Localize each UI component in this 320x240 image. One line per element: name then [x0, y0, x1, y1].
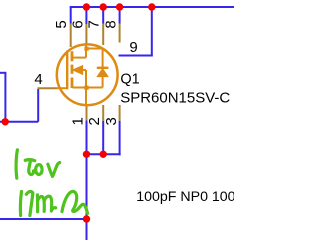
annotation 17mohm digit 1: [20, 192, 21, 216]
transistor Q1 MOSFET symbol: [57, 44, 118, 106]
svg-text:5: 5: [53, 20, 70, 28]
junction dot bus pin9: [148, 3, 155, 10]
annotation 150v digit 5: [25, 160, 35, 175]
wire pin9 horizontal: [119, 55, 153, 57]
Q1 drain to channel: [73, 57, 87, 59]
svg-text:3: 3: [103, 117, 120, 125]
wire pin6 riser: [85, 7, 87, 24]
pin 8: [119, 24, 121, 43]
svg-text:SPR60N15SV-C: SPR60N15SV-C: [120, 89, 230, 106]
junction dot gate left: [1, 118, 8, 125]
Q1 body arrow head: [73, 66, 83, 75]
junction dot bus pin8: [116, 3, 123, 10]
Q1 diode cathode lead: [102, 49, 104, 68]
wire pin8 riser: [119, 7, 121, 24]
Q1 channel bottom segment: [71, 78, 74, 89]
annotation 17mohm digit 7: [26, 191, 33, 215]
wire pin1 drop: [86, 120, 88, 154]
annotation 150v digit 0: [36, 165, 42, 175]
Q1 drain to diode horizontal: [86, 48, 103, 50]
Q1 junction square drain: [84, 47, 88, 51]
Q1 arrow to source vertical: [85, 70, 87, 88]
wire source bus: [87, 153, 121, 155]
Q1 diode cathode bar: [97, 67, 109, 69]
Q1 body arrow tail: [82, 69, 86, 71]
pin 4: [38, 87, 57, 89]
Q1 diode anode lead: [102, 76, 104, 87]
Q1 channel middle segment: [71, 65, 74, 74]
annotation 17mohm letter m: [37, 195, 55, 212]
junction dot bottom: [83, 215, 90, 222]
Q1 junction square source: [84, 86, 88, 90]
wire bottom down: [86, 219, 88, 240]
Q1 gate bar: [66, 51, 68, 90]
wire gate left vertical: [4, 73, 6, 122]
junction dot bus pin7: [100, 3, 107, 10]
wire gate top stub: [0, 72, 6, 74]
Q1 source line: [73, 87, 103, 89]
pin 6: [85, 24, 87, 45]
wire top drain bus: [70, 6, 234, 8]
Q1 gate pin inner: [57, 87, 67, 89]
junction dot source pin1: [83, 151, 90, 158]
Q1 diode triangle: [97, 69, 108, 77]
Q1 body circle: [57, 44, 118, 105]
annotation 150v digit 1: [16, 150, 17, 178]
pin 7: [102, 24, 104, 46]
annotation 150v letter v: [48, 163, 60, 177]
svg-text:1: 1: [69, 117, 86, 125]
junction dot source pin2: [100, 151, 107, 158]
junction dot bus pin6: [83, 3, 90, 10]
wire source down: [86, 154, 88, 219]
svg-text:Q1: Q1: [120, 71, 139, 87]
Q1 drain lead inner: [85, 44, 87, 58]
wire pin3 drop: [119, 121, 121, 156]
pin 1: [86, 106, 88, 121]
wire pin7 riser: [102, 7, 104, 24]
wire pin2 drop: [102, 121, 104, 155]
Q1 channel top segment: [71, 51, 74, 61]
pin 3: [119, 105, 121, 121]
Q1 source exit: [85, 88, 87, 106]
wire pin9 vertical: [151, 7, 153, 56]
pin 5: [70, 24, 72, 48]
svg-text:2: 2: [86, 117, 103, 125]
svg-text:9: 9: [129, 39, 137, 56]
svg-text:7: 7: [86, 20, 103, 28]
svg-text:8: 8: [103, 20, 120, 28]
wire pin5 riser: [70, 7, 72, 24]
wire gate drop: [37, 89, 39, 122]
pin 2: [102, 105, 104, 121]
svg-text:6: 6: [70, 20, 87, 28]
svg-text:100pF NP0 100: 100pF NP0 100: [136, 189, 234, 205]
svg-text:4: 4: [34, 71, 42, 88]
annotation 17mohm omega: [62, 191, 88, 213]
wire bottom horizontal: [0, 218, 87, 220]
wire gate horizontal: [0, 121, 38, 123]
